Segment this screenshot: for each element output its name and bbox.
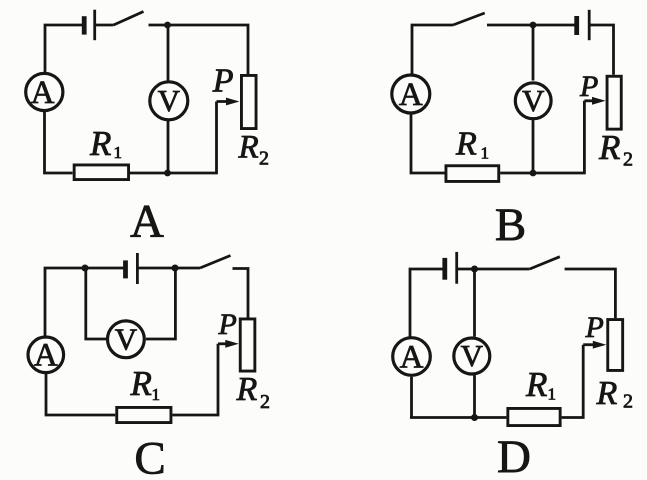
label R1 (circuit D) [525,365,556,404]
svg-text:R: R [130,364,152,403]
svg-text:R: R [89,124,111,163]
svg-text:1: 1 [548,385,557,404]
battery G1 (circuit C) [126,253,138,284]
wire C: first node to voltmeter (left) [86,268,106,339]
ammeter A (circuit D) [393,338,431,376]
svg-text:R: R [455,126,477,163]
node C-left junction [82,265,89,272]
node C-right junction [172,265,179,272]
svg-text:A: A [31,75,55,111]
svg-text:2: 2 [623,391,633,413]
node D-top junction [471,266,478,273]
wire A: R1 to bottom node [130,172,168,175]
wire A: ammeter to resistor R1 [45,112,73,173]
wire A: battery to switch pivot [95,24,114,27]
switch S1 (circuit B, open blade) [453,13,485,25]
wire A: battery left to ammeter top [45,25,84,73]
node B-top junction [530,22,537,29]
wire D: bottom node to resistor R1 [475,416,507,419]
wire A: switch contact to top node [149,24,168,27]
wire B: battery to rheostat R2 top [589,25,613,75]
node D-bottom junction [471,414,478,421]
wire C: second node to switch pivot [175,267,200,270]
wiper arrow P (circuit C) [218,340,239,348]
resistor R1 (circuit D) [508,408,560,425]
wire D: switch contact to rheostat R2 top [565,269,616,318]
wire D: ammeter to bottom node [410,377,475,418]
resistor R1 (circuit C) [117,407,171,422]
node A-bottom junction [164,170,171,177]
wire C: battery to second node [137,267,175,270]
voltmeter V (circuit B) [515,83,551,119]
rheostat R2 (circuit B) [607,76,621,129]
ammeter A (circuit C) [28,337,64,374]
svg-text:1: 1 [152,385,161,404]
svg-text:C: C [134,433,165,480]
wiper arrow P (circuit A) [217,98,240,106]
label R2 (circuit D) [596,375,634,413]
node B-bottom junction [530,170,537,177]
svg-text:R: R [596,375,618,412]
svg-text:2: 2 [259,148,269,170]
voltmeter V (circuit D) [454,338,490,374]
svg-text:1: 1 [481,144,490,163]
label R2 (circuit A) [238,130,270,170]
ammeter A (circuit B) [392,75,430,113]
wire A: voltmeter to bottom node [167,121,170,173]
wire C: left corner to first node [45,268,85,336]
battery G1 (circuit A) [84,10,95,41]
resistor R1 (circuit B) [446,166,499,182]
switch S1 (circuit C, open blade) [200,256,231,269]
wiper arrow P (circuit B) [584,97,605,105]
svg-text:P: P [212,62,234,99]
wire C: R1 to wiper riser [172,344,218,415]
svg-text:V: V [461,338,484,373]
wire B: ammeter to resistor R1 [411,114,445,173]
wiper arrow P (circuit D) [583,341,606,349]
wire D: top node to switch pivot [475,268,530,271]
svg-text:V: V [115,321,138,356]
wire B: top node to battery [533,24,577,27]
svg-text:R: R [236,371,258,408]
wire B: bottom node to wiper riser [533,101,584,173]
battery G1 (circuit D) [445,252,457,284]
wire A: bottom node to wiper riser [168,102,217,174]
svg-text:A: A [400,339,424,375]
wire B: R1 to bottom node [500,172,533,175]
svg-text:D: D [497,431,531,480]
wire B: voltmeter to bottom node [532,120,535,173]
svg-text:1: 1 [114,143,123,162]
voltmeter V (circuit C) [108,321,145,358]
wire D: battery to top node [457,268,475,271]
wire B: top node to voltmeter [532,25,535,81]
wire B: switch contact to top node [487,24,533,27]
svg-text:B: B [495,199,526,251]
wire D: left corner to battery [410,269,445,337]
wire A: top node to voltmeter [167,25,170,81]
label R2 (circuit C) [236,371,271,413]
wire C: ammeter to resistor R1 [46,374,115,415]
svg-text:R: R [238,130,259,166]
wire C: voltmeter to second node (right) [146,268,175,339]
svg-text:2: 2 [623,149,633,171]
switch S1 (circuit D, open blade) [530,257,560,269]
label R1 (circuit B) [455,126,489,163]
wire D: R1 to wiper riser [562,345,584,418]
switch S1 (circuit A, open blade) [114,12,144,26]
wire C: first node to battery [85,267,126,270]
svg-text:V: V [522,83,545,118]
voltmeter V (circuit A) [150,82,188,120]
svg-text:A: A [130,196,164,248]
label R1 (circuit C) [130,364,161,404]
resistor R1 (circuit A) [74,165,128,180]
svg-text:A: A [34,338,58,374]
svg-text:2: 2 [260,391,270,413]
node A-top junction [164,22,171,29]
label R1 (circuit A) [89,124,122,163]
ammeter A (circuit A) [26,73,63,110]
svg-text:A: A [399,77,423,113]
wire D: voltmeter to bottom node [473,375,476,417]
wire A: top node to rheostat R2 top [168,25,249,74]
svg-text:P: P [218,308,237,341]
rheostat R2 (circuit A) [241,75,256,128]
battery G1 (circuit B) [577,10,590,40]
svg-text:P: P [585,311,604,344]
svg-text:R: R [525,365,547,404]
rheostat R2 (circuit D) [608,320,623,371]
svg-text:V: V [158,83,181,118]
wire C: switch contact to rheostat R2 top [233,269,249,318]
label R2 (circuit B) [598,128,633,171]
wire B: left corner to switch pivot [412,25,453,74]
rheostat R2 (circuit C) [240,319,255,371]
svg-text:P: P [579,70,598,103]
svg-text:R: R [598,128,620,167]
wire D: top node to voltmeter [473,269,476,337]
